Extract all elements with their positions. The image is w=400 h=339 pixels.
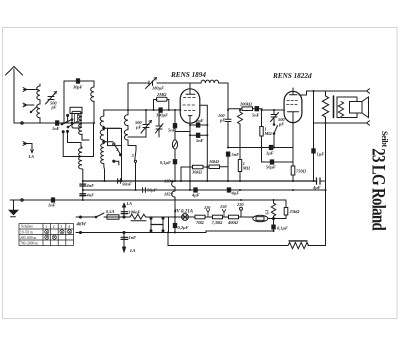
screen feed wire (200, 105, 208, 181)
variable capacitor 500pF (tuning) (141, 121, 152, 134)
svg-text:1: 1 (45, 225, 47, 229)
svg-text:Gl: Gl (265, 209, 270, 214)
bus B1 y=181 (83, 180, 317, 182)
wire antenna to coil (y=123) (14, 122, 94, 124)
input terminal arrow 2 (23, 103, 27, 107)
svg-text:0,1µF: 0,1µF (277, 226, 288, 231)
dropper zigzag (124, 214, 148, 219)
svg-text:MΩ: MΩ (264, 131, 273, 136)
switch lever a (62, 120, 72, 125)
svg-text:23 LG Roland: 23 LG Roland (368, 148, 389, 231)
scale lamp (172, 123, 190, 160)
antenna (6, 67, 23, 124)
svg-text:5nF: 5nF (252, 113, 260, 118)
capacitor 100pF (225, 119, 231, 121)
svg-text:4µF: 4µF (191, 193, 200, 198)
svg-text:2nF: 2nF (195, 118, 204, 123)
svg-text:pF: pF (51, 105, 57, 110)
mains switch (96, 213, 104, 217)
svg-text:7,30Ω: 7,30Ω (212, 220, 224, 225)
wire y=147.5 with 1µF (228, 147, 293, 149)
cap 4µF on B2 (black) (194, 188, 197, 192)
wire 30pF top (y=81) (64, 80, 94, 82)
grid wire y=110 to tube V1 (104, 109, 181, 112)
tube V2 RENS 1822d (284, 88, 302, 123)
switch 2 (113, 143, 115, 145)
trimmer capacitor (156, 124, 164, 134)
svg-text:0,5A: 0,5A (106, 209, 114, 214)
svg-text:4µF: 4µF (231, 191, 240, 196)
svg-text:2MΩ: 2MΩ (156, 92, 167, 97)
resistor 30kΩ (181, 165, 209, 169)
capacitor 4nF (upper, to B3) (80, 184, 86, 186)
wire sw3 to B2 (135, 162, 137, 190)
bus B2 y=190 (83, 189, 325, 191)
bus B3 y=200 (10, 199, 286, 201)
svg-text:5nF: 5nF (196, 138, 204, 143)
switch lever b (68, 122, 77, 128)
svg-text:50µF: 50µF (147, 188, 157, 193)
svg-text:70Ω: 70Ω (196, 220, 204, 225)
jack on B3 (21, 199, 24, 202)
LA terminal bottom left (23, 142, 34, 153)
switch S0 (31, 107, 37, 113)
node (71, 122, 73, 124)
svg-text:750Ω: 750Ω (296, 169, 307, 174)
pilot lamp 4V 0,21A (182, 214, 195, 221)
svg-text:RENS 1822d: RENS 1822d (272, 72, 312, 80)
svg-text:RENS 1894: RENS 1894 (170, 71, 206, 79)
svg-text:0,2µF: 0,2µF (178, 225, 189, 230)
wire B to ballast (168, 233, 288, 246)
svg-text:4nF: 4nF (86, 183, 95, 188)
power row 2 (y=232.5) (76, 232, 160, 234)
speaker (334, 96, 369, 118)
power row 1 (y=217) (76, 216, 96, 218)
svg-text:5nF: 5nF (232, 152, 240, 157)
heater chain (174, 164, 176, 181)
svg-text:4µF: 4µF (312, 185, 321, 190)
resistor 1MΩ vertical (260, 110, 263, 162)
svg-text:Schalter: Schalter (21, 225, 34, 229)
coil L7 (124, 110, 136, 146)
svg-text:50nF: 50nF (122, 182, 132, 187)
svg-text:700–2000 m: 700–2000 m (20, 241, 38, 245)
capacitor 30pF (black) (76, 79, 79, 83)
LA tap up with 100nF (121, 203, 128, 218)
table (19, 224, 74, 246)
contact stub (67, 115, 69, 124)
wire x=128 from 180pF wire down to grid wire (127, 83, 129, 110)
cap 2nF stub (black) (190, 124, 207, 126)
wire trimmers to grid wire (146, 110, 159, 126)
resistor 200kΩ (anode load) (228, 107, 256, 111)
band switch box (70, 107, 82, 113)
oscillator coil lower section (79, 147, 83, 200)
oscillator coil upper section (79, 111, 89, 140)
svg-text:1894: 1894 (164, 179, 174, 184)
resistor 400Ω (229, 215, 239, 219)
svg-text:1µF: 1µF (266, 151, 274, 156)
barretter tube (253, 215, 285, 221)
switch 3 (135, 146, 136, 160)
svg-text:110: 110 (204, 205, 211, 210)
svg-text:Seibt: Seibt (380, 131, 389, 147)
input terminal arrow 1 (23, 88, 27, 92)
cap 5nF stub (black) (190, 134, 207, 136)
anode wire V2 to output (299, 91, 366, 95)
grid components V2: 500pF variable (271, 110, 279, 124)
svg-text:4V 0,21A: 4V 0,21A (173, 210, 194, 215)
resistor 25kΩ (284, 200, 288, 219)
coil L2 secondary (91, 81, 94, 123)
svg-text:1822: 1822 (164, 192, 174, 197)
capacitor 5nF (black) on x=228 (226, 152, 229, 156)
capacitor 5nF coupling (black) (255, 107, 259, 111)
ballast resistor (288, 242, 309, 248)
taps 110 150 220 (204, 202, 244, 217)
svg-text:50µF: 50µF (266, 165, 276, 170)
rectifier zigzag 25k (271, 200, 275, 219)
svg-text:µF: µF (135, 125, 142, 130)
capacitor 0,2µF heater bypass (174, 217, 176, 233)
coupling cap 1µF to bus (313, 91, 315, 149)
svg-text:25kΩ: 25kΩ (289, 209, 301, 214)
svg-text:30pF: 30pF (72, 85, 83, 90)
series cap 4µF on B1 right end (317, 178, 321, 184)
wire A to rectifier cap (160, 231, 274, 233)
resistor grid-leak zigzag x=240 (238, 109, 243, 181)
band switch body (72, 111, 81, 128)
brand text (368, 131, 389, 231)
svg-text:1nF: 1nF (48, 203, 56, 208)
svg-text:MΩ: MΩ (242, 166, 251, 171)
output bottom wire (314, 122, 367, 124)
svg-text:10kΩ: 10kΩ (209, 159, 220, 164)
svg-text:150: 150 (220, 204, 227, 209)
wire vertical x=64 (63, 81, 65, 123)
svg-text:5nF: 5nF (168, 128, 176, 133)
tube V1 RENS 1894 (180, 84, 200, 123)
cathode resistor 750Ω (291, 123, 295, 181)
svg-text:0,1µF: 0,1µF (160, 160, 171, 165)
wire can to B1 (121, 146, 123, 181)
svg-text:1nF: 1nF (129, 235, 137, 240)
svg-text:300µF: 300µF (155, 113, 168, 118)
node jack on antenna wire (21, 122, 24, 125)
ground (9, 200, 19, 217)
svg-text:3: 3 (60, 225, 62, 229)
variable capacitor 180pF (feedback) (128, 78, 186, 89)
series cap 50µF on B2 (143, 188, 146, 193)
svg-text:200–600 m: 200–600 m (20, 236, 36, 240)
svg-text:LA: LA (129, 248, 136, 253)
fuse 0,5A (104, 215, 124, 219)
svg-text:220: 220 (236, 202, 244, 207)
svg-text:4: 4 (68, 225, 70, 229)
anode coil on top wire (186, 80, 228, 110)
wire (24, 104, 35, 106)
cap 0,1µF under rectifier (273, 219, 275, 226)
svg-text:180µF: 180µF (152, 86, 164, 91)
svg-text:100nF: 100nF (129, 210, 141, 215)
svg-text:1µF: 1µF (317, 152, 325, 157)
capacitor 5nF grid (black) (173, 124, 176, 128)
lower 100nF + LA (121, 231, 128, 252)
svg-text:LA: LA (28, 154, 35, 159)
svg-text:4nF: 4nF (86, 193, 95, 198)
feed wires to lower coil (62, 123, 93, 157)
resistor 10kΩ (209, 165, 228, 169)
svg-text:30kΩ: 30kΩ (191, 170, 203, 175)
series cap 50nF on B1 (118, 179, 121, 184)
svg-text:1nF: 1nF (52, 126, 60, 131)
capacitor 4nF (lower, to B3) (80, 194, 86, 196)
wire x=190 to B1 (189, 123, 191, 190)
cap 4µF on B2 right (black) (227, 188, 230, 192)
svg-text:pF: pF (278, 122, 284, 127)
cap 1nF on B3 (black) (51, 198, 54, 202)
mid coil bank: coil L6 (100, 111, 120, 182)
svg-text:2: 2 (53, 225, 55, 229)
antenna coil L1 (37, 84, 40, 123)
svg-text:LA: LA (126, 201, 133, 206)
capacitor 1nF (series, black) (56, 121, 59, 125)
resistor 730Ω (213, 215, 223, 219)
svg-text:200kΩ: 200kΩ (239, 102, 253, 107)
primary resistor zigzag (322, 91, 328, 123)
screen can box (108, 128, 122, 145)
switch at V2 grid (274, 126, 278, 134)
wire (24, 89, 39, 91)
voltage link posts (150, 217, 169, 233)
grid leak 2MOhm + 300pF (152, 97, 169, 112)
resistor 70Ω (195, 215, 205, 219)
svg-text:400Ω: 400Ω (227, 220, 239, 225)
cap 0,1µF (173, 160, 176, 164)
svg-text:46W: 46W (76, 223, 87, 228)
svg-text:pF: pF (219, 118, 225, 123)
wire y=162 with 50µF (262, 161, 294, 163)
variable capacitor 500pF (46, 92, 57, 105)
svg-text:19–50 m: 19–50 m (20, 230, 33, 234)
